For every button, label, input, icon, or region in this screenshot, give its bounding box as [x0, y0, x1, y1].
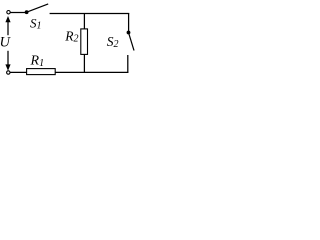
svg-text:U: U [0, 35, 12, 51]
svg-text:S2: S2 [107, 34, 119, 50]
svg-text:S1: S1 [30, 15, 42, 31]
svg-text:R1: R1 [30, 54, 45, 69]
svg-text:R2: R2 [64, 28, 78, 44]
